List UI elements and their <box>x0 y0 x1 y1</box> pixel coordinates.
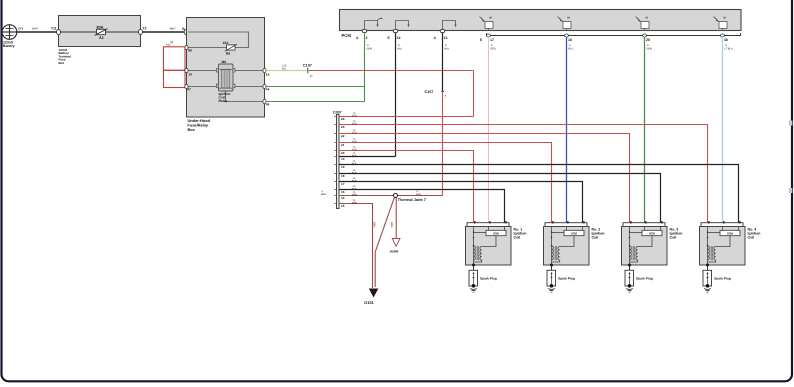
svg-text:15: 15 <box>341 204 345 208</box>
svg-text:B9: B9 <box>226 52 230 56</box>
svg-text:18: 18 <box>341 174 345 178</box>
svg-text:GRN: GRN <box>367 47 373 50</box>
svg-text:BLK: BLK <box>445 47 450 50</box>
svg-text:PCM: PCM <box>342 33 352 38</box>
svg-text:LT BLU: LT BLU <box>725 47 733 50</box>
svg-text:16: 16 <box>266 72 270 76</box>
svg-text:G101: G101 <box>364 300 375 305</box>
svg-text:20: 20 <box>341 151 345 155</box>
svg-text:28: 28 <box>646 38 650 42</box>
svg-text:(+): (+) <box>19 27 23 31</box>
svg-text:BLU: BLU <box>569 47 574 50</box>
svg-text:A22: A22 <box>166 43 171 46</box>
svg-text:Coil: Coil <box>514 236 521 240</box>
svg-text:A: A <box>356 36 359 40</box>
svg-text:Thermal Joint 7: Thermal Joint 7 <box>398 198 426 202</box>
svg-text:A1: A1 <box>99 36 104 40</box>
svg-text:M8: M8 <box>222 60 227 64</box>
svg-text:C107: C107 <box>303 64 312 68</box>
svg-text:24: 24 <box>341 117 345 121</box>
svg-text:Coil: Coil <box>748 236 755 240</box>
svg-text:M: M <box>646 17 648 20</box>
svg-text:10: 10 <box>188 72 192 76</box>
svg-text:M: M <box>490 17 492 20</box>
svg-text:18: 18 <box>568 38 572 42</box>
svg-text:86: 86 <box>188 48 192 52</box>
svg-text:WHT: WHT <box>170 27 177 31</box>
svg-text:BLK: BLK <box>398 47 403 50</box>
svg-text:46: 46 <box>266 102 270 106</box>
svg-text:M: M <box>724 17 726 20</box>
svg-text:22: 22 <box>341 134 345 138</box>
svg-text:BRN: BRN <box>390 222 393 228</box>
svg-text:E: E <box>388 36 391 40</box>
svg-text:T2: T2 <box>143 27 147 31</box>
svg-text:BRN: BRN <box>352 193 357 196</box>
svg-text:BLK: BLK <box>352 154 357 157</box>
svg-text:BRN: BRN <box>352 201 357 204</box>
svg-text:C007: C007 <box>333 111 342 115</box>
svg-text:BRN: BRN <box>373 222 376 228</box>
svg-text:19: 19 <box>341 165 345 169</box>
svg-text:GRN: GRN <box>647 47 653 50</box>
svg-text:Coil: Coil <box>592 236 599 240</box>
svg-text:C107: C107 <box>425 90 434 94</box>
svg-text:44: 44 <box>266 87 270 91</box>
svg-text:BLK: BLK <box>352 162 357 165</box>
svg-text:WHT: WHT <box>32 27 39 31</box>
svg-text:16: 16 <box>341 190 345 194</box>
svg-text:Box: Box <box>188 127 196 132</box>
svg-text:Relay: Relay <box>219 99 228 103</box>
svg-text:15A: 15A <box>223 41 230 45</box>
svg-text:16: 16 <box>310 75 313 78</box>
svg-text:E: E <box>480 38 483 42</box>
svg-text:14: 14 <box>341 196 345 200</box>
svg-text:80A: 80A <box>97 26 104 30</box>
svg-text:13: 13 <box>341 157 345 161</box>
svg-text:RED: RED <box>491 47 496 50</box>
svg-text:T11: T11 <box>51 27 57 31</box>
svg-text:BLK: BLK <box>352 179 357 182</box>
svg-text:RED: RED <box>352 140 357 143</box>
svg-text:48: 48 <box>724 38 728 42</box>
svg-text:RED: RED <box>416 193 421 196</box>
svg-text:17: 17 <box>490 38 494 42</box>
svg-text:24: 24 <box>397 36 401 40</box>
svg-text:BRN: BRN <box>321 193 326 196</box>
svg-text:RED: RED <box>352 122 357 125</box>
svg-text:RED: RED <box>352 131 357 134</box>
svg-text:RED: RED <box>352 114 357 117</box>
svg-text:Box: Box <box>59 61 65 65</box>
svg-text:Coil: Coil <box>670 236 677 240</box>
svg-text:BLK: BLK <box>352 171 357 174</box>
svg-text:2: 2 <box>366 36 368 40</box>
svg-text:YEL: YEL <box>282 67 287 70</box>
svg-text:A: A <box>434 36 437 40</box>
svg-text:23: 23 <box>341 125 345 129</box>
svg-text:Joint: Joint <box>390 250 400 254</box>
svg-text:13: 13 <box>444 36 448 40</box>
svg-text:4: 4 <box>445 95 447 98</box>
svg-text:21: 21 <box>341 143 345 147</box>
svg-text:M: M <box>568 17 570 20</box>
svg-text:Battery: Battery <box>3 44 15 48</box>
svg-text:17: 17 <box>341 182 345 186</box>
